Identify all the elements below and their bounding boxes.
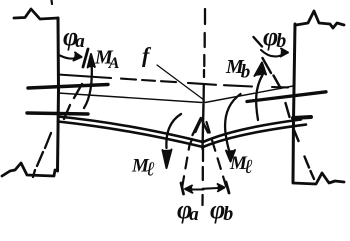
bottom-left break (zigzag): [2, 163, 55, 176]
splayed dashed line (right): [207, 122, 227, 186]
beam double line right top: [203, 120, 301, 143]
bottom double arrow pointing outward: [189, 188, 204, 190]
svg-text:φa: φa: [63, 22, 85, 52]
chord thin line right: [205, 86, 293, 103]
svg-text:φb: φb: [263, 22, 286, 52]
rotated column axis dashed (left): [33, 84, 82, 177]
right column: [293, 24, 295, 182]
rotated column axis dashed (right): [254, 37, 315, 179]
tick left (bottom dimension): [181, 183, 184, 194]
center vertical dashed line (top): [204, 9, 205, 102]
splayed dashed line (left): [182, 122, 200, 188]
top-left break (zigzag): [14, 9, 58, 19]
svg-text:Mℓ: Mℓ: [131, 156, 155, 181]
beam double line right bottom: [203, 125, 306, 147]
bottom-right break (zigzag): [293, 173, 344, 184]
joint stub right: [293, 117, 311, 118]
moment arrow M_l (left): [166, 114, 181, 148]
svg-text:MA: MA: [94, 47, 120, 73]
tick right (bottom dimension): [226, 182, 229, 193]
moment arrow M_b: [256, 75, 262, 120]
stray mark top: [50, 0, 53, 4]
svg-text:f: f: [142, 43, 152, 68]
horizontal dashed axis: [58, 75, 288, 88]
moment arrow M_A: [84, 61, 92, 108]
beam double line left top: [58, 117, 203, 143]
left column: [58, 18, 59, 171]
phi-a arc arrow (top left): [60, 56, 78, 59]
top-right break (zigzag): [296, 11, 344, 28]
bar lower-left: [27, 113, 88, 114]
chord thin line left: [58, 93, 202, 103]
beam double line left bottom: [58, 122, 203, 148]
svg-text:φb: φb: [210, 195, 233, 225]
rotated column axis tick (left): [83, 49, 88, 67]
center vertical dashed line (bottom): [201, 148, 204, 205]
f leader line: [157, 65, 204, 100]
svg-text:Mℓ: Mℓ: [229, 153, 253, 178]
svg-text:φa: φa: [177, 195, 199, 225]
bar upper-left: [28, 85, 108, 89]
svg-text:Mb: Mb: [225, 56, 250, 83]
bar right: [247, 92, 326, 102]
moment arrow M_l (right): [225, 94, 240, 152]
deflection arrow (up) at midspan: [203, 104, 204, 149]
phi-b arc arrow (top right): [261, 50, 284, 56]
